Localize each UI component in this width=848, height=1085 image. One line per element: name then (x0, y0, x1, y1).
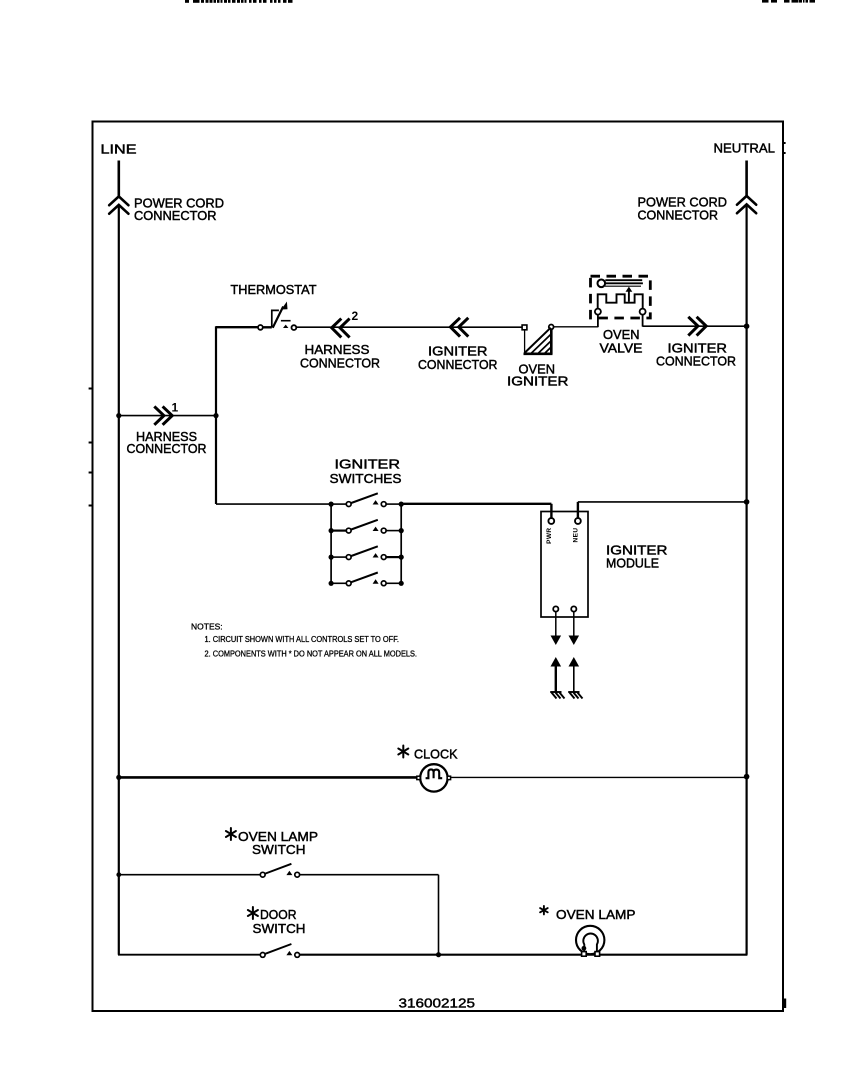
igniter connector left (double chevron left) (450, 318, 468, 337)
wire: igniter switches to igniter module PWR (401, 504, 551, 519)
oven valve (591, 276, 651, 327)
svg-text:CONNECTOR: CONNECTOR (638, 208, 719, 223)
wire: bottom row door switch to neutral (299, 954, 747, 956)
junction: harness1 right (213, 413, 218, 418)
thermostat (258, 302, 296, 331)
svg-text:DOOR: DOOR (260, 907, 297, 922)
svg-text:CONNECTOR: CONNECTOR (134, 208, 217, 223)
svg-text:LINE: LINE (101, 142, 137, 157)
igniter module bottom pin right (569, 606, 580, 645)
svg-text:CONNECTOR: CONNECTOR (656, 354, 736, 369)
pin label 2 (352, 309, 359, 323)
power cord connector (NEUTRAL side) (737, 196, 756, 213)
wire: LINE vertical upper stub (118, 161, 121, 197)
wire: thermostat to oven igniter (296, 326, 522, 328)
top edge print artifact right (762, 0, 815, 3)
wire: LINE vertical main (118, 205, 120, 955)
junction: clock row right (744, 774, 750, 780)
wire: oven igniter to oven valve left leg (554, 326, 598, 328)
frame border scan artifacts (89, 142, 787, 1008)
igniter switches bus left (330, 504, 332, 583)
svg-text:MODULE: MODULE (606, 555, 659, 570)
svg-text:1: 1 (172, 401, 179, 415)
junction: lamp switch drop at bottom row (436, 952, 441, 957)
door switch (260, 944, 299, 957)
asterisk for OVEN LAMP (540, 906, 548, 914)
wire: clock row left (bold) (119, 776, 418, 779)
wire: NEUTRAL vertical main (745, 204, 747, 954)
asterisk for CLOCK (398, 746, 408, 758)
wire: oven valve right leg to neutral (643, 325, 747, 327)
asterisk for OVEN LAMP SWITCH (226, 828, 236, 840)
svg-text:SWITCH: SWITCH (253, 921, 306, 936)
chassis ground left (550, 692, 564, 699)
asterisk for DOOR SWITCH (248, 907, 258, 919)
junction: clock row left (116, 775, 121, 780)
junction: lamp switch row left (116, 872, 121, 877)
svg-text:THERMOSTAT: THERMOSTAT (231, 282, 317, 297)
pin label 1 (172, 401, 179, 415)
junction: module row at neutral (744, 499, 750, 505)
igniter switches bus right (400, 504, 402, 584)
oven igniter (522, 325, 554, 355)
svg-text:IGNITER: IGNITER (335, 457, 401, 472)
wire: bottom row left to door switch (118, 954, 261, 956)
svg-text:IGNITER: IGNITER (507, 373, 569, 388)
igniter switch 2 (329, 520, 404, 533)
svg-text:VALVE: VALVE (600, 340, 643, 355)
svg-text:PWR: PWR (546, 528, 553, 544)
chassis ground right (568, 692, 582, 699)
clock motor (417, 764, 451, 791)
harness connector 2 (double chevron left) (332, 319, 350, 338)
svg-text:NEU: NEU (573, 528, 580, 543)
igniter module bottom pin left (551, 606, 562, 645)
svg-text:CONNECTOR: CONNECTOR (127, 441, 207, 456)
top edge print artifact left (185, 0, 293, 3)
wire: feed to igniter switches (216, 503, 331, 505)
igniter module pin NEU (573, 518, 581, 542)
junction: valve row at neutral (744, 323, 750, 329)
svg-text:SWITCH: SWITCH (252, 842, 306, 857)
oven lamp (576, 926, 604, 956)
notes block (191, 621, 417, 658)
wire: NEUTRAL vertical upper stub (745, 161, 748, 196)
chassis lead right (up arrow) (569, 657, 580, 692)
svg-text:CLOCK: CLOCK (414, 747, 458, 762)
oven lamp switch (260, 864, 299, 877)
igniter module pin PWR (546, 518, 554, 544)
wire: oven lamp switch row (119, 875, 439, 955)
wire: igniter module NEU to neutral (578, 502, 747, 519)
chassis lead left (up arrow) (551, 657, 562, 692)
svg-text:1. CIRCUIT SHOWN WITH ALL CONT: 1. CIRCUIT SHOWN WITH ALL CONTROLS SET T… (205, 634, 400, 644)
svg-text:2: 2 (352, 309, 359, 323)
wire: clock row right (thin) (451, 776, 747, 778)
svg-text:2. COMPONENTS WITH * DO NOT AP: 2. COMPONENTS WITH * DO NOT APPEAR ON AL… (205, 648, 418, 658)
wire: left branch vertical x=216 (215, 326, 217, 504)
svg-text:NOTES:: NOTES: (191, 621, 223, 631)
svg-text:SWITCHES: SWITCHES (330, 471, 402, 486)
border frame (93, 122, 784, 1012)
svg-text:CONNECTOR: CONNECTOR (300, 355, 380, 370)
svg-text:OVEN LAMP: OVEN LAMP (556, 907, 636, 922)
harness connector 1 (double chevron right) (154, 406, 172, 424)
junction: harness1 left (116, 413, 121, 418)
svg-text:NEUTRAL: NEUTRAL (714, 141, 776, 156)
svg-text:316002125: 316002125 (399, 996, 476, 1011)
igniter connector right (double chevron right) (688, 317, 706, 336)
igniter switch 1 (329, 493, 404, 506)
igniter module U1 box (541, 512, 588, 618)
igniter switch 3 (329, 546, 404, 559)
power cord connector (LINE side) (109, 196, 128, 213)
wire: thermostat row elbow at x=216 (216, 326, 259, 328)
svg-text:CONNECTOR: CONNECTOR (418, 357, 498, 372)
wire: harness connector 1 row (119, 415, 216, 417)
igniter switch 4 (329, 573, 404, 586)
